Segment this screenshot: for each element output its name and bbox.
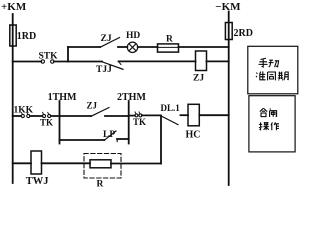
label 合闸 (close) <box>260 108 277 117</box>
relay coil TWJ <box>26 151 49 187</box>
svg-text:HC: HC <box>186 130 201 141</box>
contact DL.1 <box>160 103 188 125</box>
relay coil ZJ <box>193 51 207 84</box>
svg-text:TK: TK <box>40 118 53 128</box>
lamp HD <box>126 31 140 53</box>
box manual quasi-synchronizing device <box>248 46 298 94</box>
fuse 1RD <box>10 25 36 46</box>
准 <box>256 71 266 80</box>
relay coil HC <box>186 104 201 140</box>
label 操作 (operate) <box>259 122 279 130</box>
resistor R (rung D) <box>90 160 111 190</box>
wire rung C to rail <box>199 114 228 116</box>
contact ZJ (rung C) <box>87 101 129 117</box>
wire right rail <box>228 40 230 186</box>
wire left rail <box>12 46 14 183</box>
动 <box>269 60 279 67</box>
contact LP <box>103 130 129 142</box>
wire right rail top <box>228 12 230 23</box>
box closing operation <box>249 96 295 152</box>
wire branch B mid <box>138 46 158 48</box>
resistor R (upper branch) <box>158 35 179 53</box>
wire rung C seg4 <box>129 115 135 117</box>
wire rung A middle <box>54 61 102 63</box>
手 <box>259 58 268 67</box>
svg-text:R: R <box>166 35 173 45</box>
wire rung D mid <box>42 162 91 164</box>
期 <box>278 72 288 81</box>
svg-text:DL.1: DL.1 <box>161 103 181 113</box>
label 手动 (manual) <box>259 58 279 67</box>
svg-text:2THM: 2THM <box>117 92 146 103</box>
wire branch B left <box>68 46 100 48</box>
同 <box>268 72 276 80</box>
svg-text:LP: LP <box>103 130 115 140</box>
svg-text:1THM: 1THM <box>48 92 77 103</box>
svg-text:TWJ: TWJ <box>26 176 49 187</box>
wire rung C left <box>13 115 22 117</box>
wire rung C seg3 <box>51 115 91 117</box>
合 <box>260 108 267 116</box>
contact TJJ <box>96 61 123 75</box>
wire rung C seg2 <box>30 115 43 117</box>
wire riser to rung C <box>160 115 162 163</box>
contact ZJ (upper branch) <box>100 34 127 47</box>
wire left rail top <box>12 14 14 25</box>
svg-text:HD: HD <box>126 31 140 41</box>
svg-text:TJJ: TJJ <box>96 65 112 75</box>
wire rung D right <box>111 163 161 165</box>
操 <box>259 122 269 130</box>
wire branch B right <box>179 46 229 48</box>
svg-text:+KM: +KM <box>1 1 27 13</box>
label 准同期 <box>256 71 288 80</box>
wire rung A left <box>13 61 42 63</box>
switch STK <box>39 52 59 64</box>
wire rung A right <box>119 60 196 62</box>
作 <box>271 122 279 130</box>
terminal TK (left) <box>40 112 53 127</box>
svg-text:1RD: 1RD <box>17 31 36 42</box>
contact LP branch wire <box>60 139 105 141</box>
node 1THM <box>48 92 77 144</box>
switch 1KK <box>14 106 34 118</box>
terminal TK (right) <box>133 112 146 127</box>
fuse 2RD <box>225 23 253 40</box>
svg-text:2RD: 2RD <box>234 28 253 39</box>
闸 <box>270 109 277 117</box>
svg-text:ZJ: ZJ <box>87 101 98 111</box>
wire rung D left <box>13 162 31 164</box>
svg-text:TK: TK <box>133 117 146 127</box>
dashed enclosure <box>84 154 121 179</box>
wire rung A to rail <box>207 60 229 62</box>
svg-text:ZJ: ZJ <box>193 74 204 84</box>
wire rung C seg5 <box>142 114 160 116</box>
wire branch riser <box>67 47 69 62</box>
svg-text:R: R <box>97 180 104 188</box>
node 2THM <box>117 92 146 144</box>
